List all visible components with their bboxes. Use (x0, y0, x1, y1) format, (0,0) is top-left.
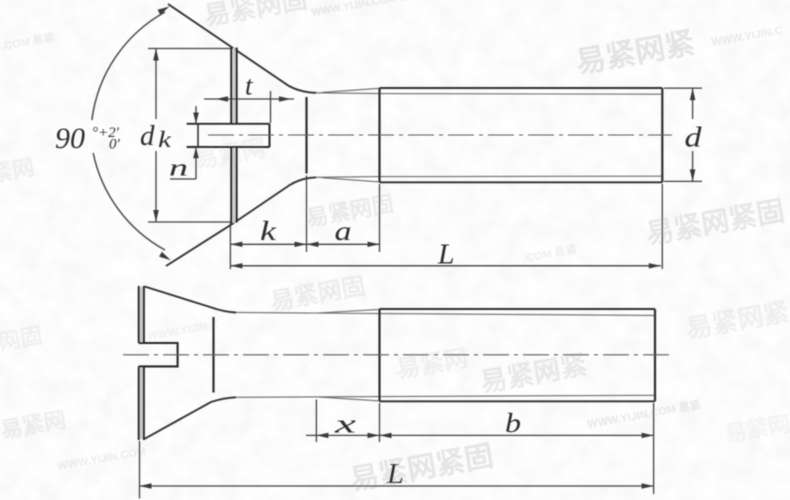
thread start line (378, 309, 380, 401)
head cone upper edge (145, 287, 236, 313)
neck lower line to minor dia (236, 395, 655, 397)
svg-text:L: L (437, 239, 455, 270)
b dimension (380, 403, 654, 494)
slot (side view) rectangle (187, 124, 270, 147)
svg-text:90: 90 (55, 122, 85, 155)
svg-text:d: d (685, 122, 703, 154)
shank major dia top line (380, 308, 656, 310)
head/neck boundary line (k end) (305, 97, 307, 174)
svg-text:L: L (386, 459, 404, 490)
center line (axis) (123, 354, 670, 356)
svg-text:x: x (333, 410, 357, 439)
slot notch (front view) (139, 343, 178, 366)
shank major dia bottom line (380, 181, 663, 183)
n dimension (170, 106, 196, 179)
L dimension (top view) (230, 184, 662, 269)
head flat face double line (left) (138, 286, 140, 440)
countersink 90-degree arc (upper segment) (92, 12, 165, 120)
neck upper line to minor dia (236, 312, 655, 315)
shank end line (661, 88, 663, 182)
neck upper line (minor dia) (316, 93, 662, 94)
svg-text:d: d (140, 120, 155, 152)
shank end line (654, 309, 656, 401)
head face gray infill between double lines (233, 48, 236, 223)
head cone upper edge with extension to apex (168, 4, 316, 93)
k dimension (230, 176, 306, 270)
t dimension (204, 91, 294, 123)
shank major dia top line (380, 87, 663, 89)
svg-text:a: a (335, 216, 352, 246)
head/neck boundary line (212, 317, 214, 393)
svg-text:k: k (260, 216, 277, 246)
head cone lower edge (145, 397, 236, 439)
a dimension (307, 184, 380, 252)
svg-text:b: b (505, 408, 521, 438)
shank major dia bottom line (380, 400, 656, 402)
thread start line (378, 88, 380, 182)
head face gray infill between double lines (bottom view) (140, 287, 142, 439)
x dimension (306, 400, 380, 443)
thread runout lower (322, 178, 380, 182)
head flat face double line (left) (230, 48, 232, 225)
arc arrowhead (bottom end) (159, 252, 171, 260)
dk dimension (148, 49, 231, 223)
head flat face double line (right) (143, 286, 145, 440)
thread runout lower (318, 397, 380, 401)
neck lower line (minor dia) (316, 176, 662, 177)
d dimension (664, 88, 702, 181)
arc arrowhead (top end) (158, 7, 170, 15)
svg-text:k: k (158, 127, 172, 152)
svg-text:n: n (169, 156, 188, 182)
head cone lower edge with extension to apex (166, 177, 316, 266)
thread runout upper (318, 309, 380, 313)
svg-text:0′: 0′ (109, 137, 121, 153)
L dimension (bottom view) (140, 441, 654, 499)
thread start extension for x/b (379, 403, 381, 442)
thread runout upper (322, 88, 380, 92)
center line (axis) (208, 134, 672, 136)
head flat face double line (right) (236, 48, 238, 223)
countersink 90-degree arc (lower segment) (93, 153, 165, 250)
